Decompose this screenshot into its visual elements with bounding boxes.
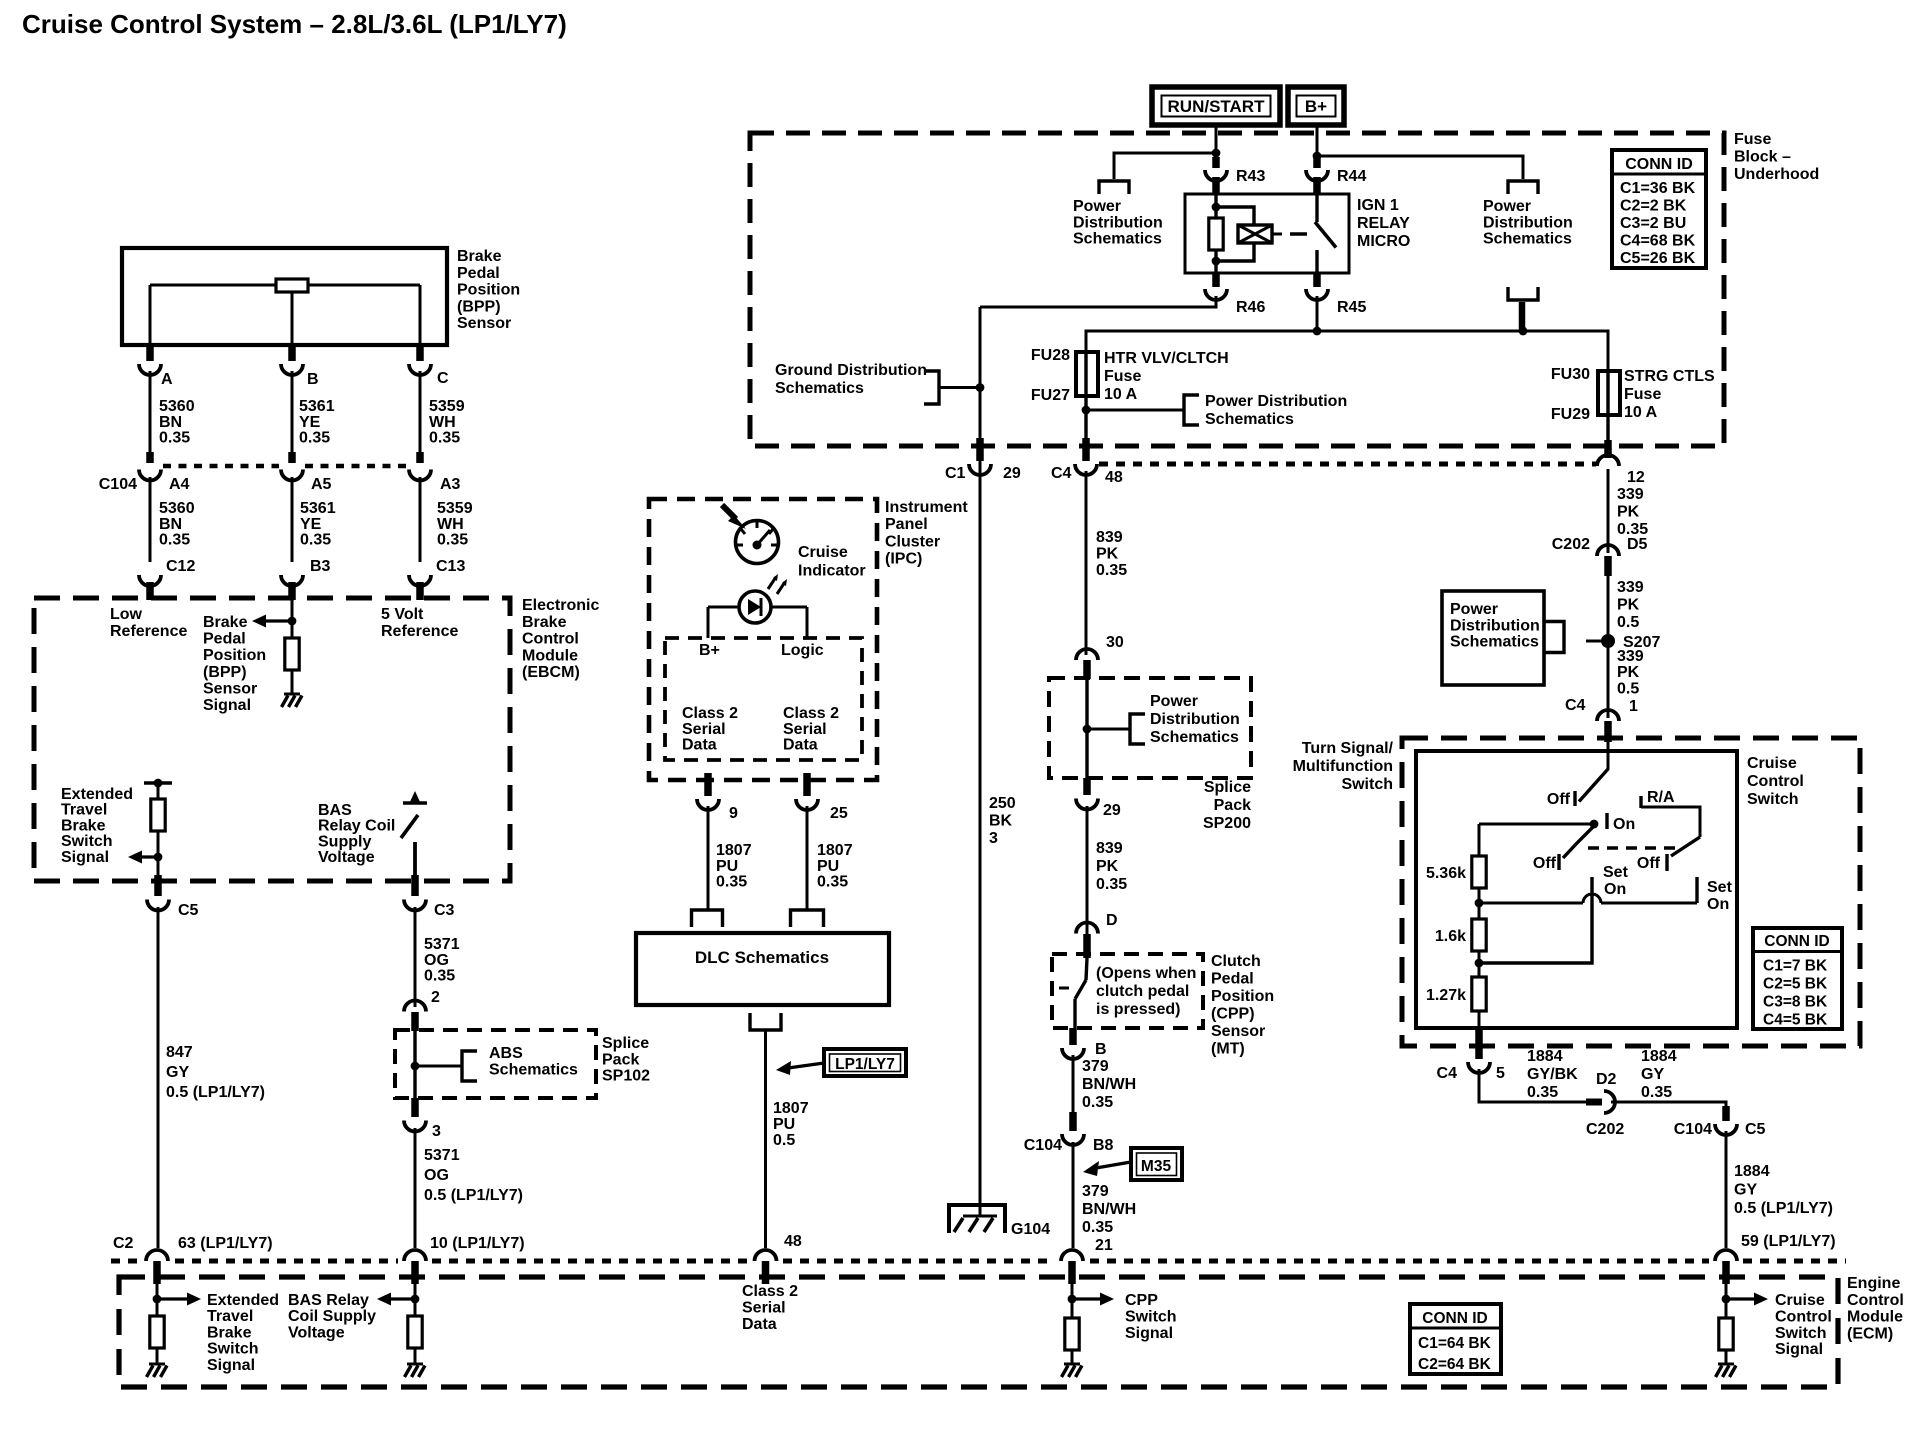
svg-text:12: 12	[1627, 469, 1645, 486]
svg-text:(IPC): (IPC)	[885, 551, 922, 568]
resistor ECM CPP	[1065, 1318, 1079, 1364]
svg-text:0.35: 0.35	[424, 968, 455, 985]
callout box LP1/LY7	[824, 1049, 906, 1076]
svg-text:C104: C104	[1674, 1121, 1712, 1138]
wire 5359 WH segment 2	[419, 477, 422, 562]
svg-text:Pedal: Pedal	[457, 265, 500, 282]
label wire 379 BN/WH 0.35 b	[1082, 1183, 1136, 1236]
svg-text:C2=5 BK: C2=5 BK	[1763, 976, 1828, 993]
connector R43	[1205, 157, 1265, 194]
wire 379 BN/WH segment 2	[1072, 1142, 1075, 1248]
svg-text:Distribution: Distribution	[1073, 214, 1163, 231]
switch blade off middle	[1533, 826, 1594, 872]
arrow extended travel signal	[128, 851, 158, 864]
svg-text:Distribution: Distribution	[1150, 711, 1240, 728]
connector pin B CPP	[1062, 1028, 1107, 1059]
svg-text:PK: PK	[1096, 858, 1119, 875]
svg-text:STRG CTLS: STRG CTLS	[1624, 368, 1715, 385]
svg-text:Switch: Switch	[1747, 791, 1799, 808]
svg-text:C12: C12	[166, 558, 195, 575]
relay coil crossed-box element	[1238, 225, 1282, 243]
svg-text:48: 48	[1105, 469, 1123, 486]
resistor 1.6k	[1435, 919, 1486, 951]
relay coil feed junction top	[1212, 203, 1221, 212]
svg-text:Travel: Travel	[61, 802, 107, 819]
node BPP signal junction	[288, 617, 297, 626]
svg-text:ABS: ABS	[489, 1045, 523, 1062]
label HTR VLV/CLTCH fuse	[1104, 350, 1229, 403]
label EBCM	[522, 597, 599, 681]
electronic brake control module box	[34, 598, 510, 881]
label ABS schematics	[489, 1045, 578, 1078]
svg-text:Brake: Brake	[203, 614, 248, 631]
wire 5361 YE segment 2	[291, 477, 294, 562]
splice pack SP200 box	[1049, 678, 1251, 778]
connector R46	[1205, 274, 1265, 316]
svg-text:Signal: Signal	[207, 1357, 255, 1374]
node FU27 junction	[1082, 406, 1091, 415]
power feed B+ box	[1288, 87, 1344, 125]
node junction at R43 wire	[1212, 149, 1221, 158]
svg-text:A5: A5	[311, 476, 332, 493]
svg-text:C2=2 BK: C2=2 BK	[1620, 198, 1687, 215]
wire 5360 BN segment 2	[149, 477, 152, 562]
connector C2 pin 63	[146, 1250, 168, 1284]
svg-text:C: C	[437, 370, 449, 387]
off-page bracket power distribution right top	[1508, 181, 1538, 194]
svg-text:C2=64 BK: C2=64 BK	[1418, 1356, 1492, 1373]
node chain junction 1	[1475, 899, 1484, 908]
svg-text:0.35: 0.35	[1096, 562, 1127, 579]
indicator LED	[708, 591, 807, 623]
connector pin 48 boundary	[755, 1250, 777, 1284]
svg-text:Power: Power	[1483, 198, 1531, 215]
label wire 5371 OG 0.5	[424, 1147, 523, 1204]
svg-text:Off: Off	[1533, 855, 1557, 872]
svg-text:Pedal: Pedal	[1211, 971, 1254, 988]
relay internal dashed link	[1290, 232, 1307, 235]
svg-text:Multifunction: Multifunction	[1293, 758, 1393, 775]
svg-text:Control: Control	[1747, 773, 1804, 790]
connector C3 EBCM	[404, 875, 455, 919]
switch BAS relay	[401, 791, 427, 881]
svg-text:OG: OG	[424, 1167, 449, 1184]
svg-text:21: 21	[1095, 1237, 1113, 1254]
svg-text:0.35: 0.35	[429, 430, 460, 447]
svg-text:Module: Module	[522, 647, 578, 664]
label Logic pin	[781, 642, 824, 659]
wire 847 GY	[157, 907, 160, 1248]
off-page bracket ground distribution	[924, 371, 978, 404]
label power distribution schematics SP200	[1150, 693, 1240, 746]
svg-text:29: 29	[1003, 465, 1021, 482]
svg-text:YE: YE	[300, 516, 322, 533]
connector C104 pin A3	[409, 470, 461, 494]
svg-text:C202: C202	[1552, 536, 1590, 553]
svg-text:Cruise Control System – 2.8L/3: Cruise Control System – 2.8L/3.6L (LP1/L…	[22, 9, 567, 39]
svg-text:clutch pedal: clutch pedal	[1096, 983, 1189, 1000]
label FU27	[1031, 387, 1070, 404]
svg-text:Fuse: Fuse	[1104, 368, 1141, 385]
svg-text:On: On	[1613, 816, 1635, 833]
connector pin 30 SP200	[1076, 634, 1124, 679]
svg-text:C2: C2	[113, 1235, 134, 1252]
wire B3 into EBCM	[291, 600, 294, 638]
svg-text:839: 839	[1096, 840, 1123, 857]
svg-text:BAS Relay: BAS Relay	[288, 1292, 369, 1309]
connector R44	[1306, 157, 1366, 194]
svg-text:PU: PU	[716, 858, 738, 875]
svg-text:Control: Control	[522, 631, 579, 648]
svg-text:Sensor: Sensor	[1211, 1023, 1265, 1040]
label cruise control switch	[1747, 755, 1804, 808]
svg-text:FU28: FU28	[1031, 347, 1070, 364]
svg-text:Switch: Switch	[1775, 1325, 1827, 1342]
svg-text:Logic: Logic	[781, 642, 824, 659]
svg-text:CONN ID: CONN ID	[1422, 1310, 1487, 1327]
svg-text:48: 48	[784, 1233, 802, 1250]
connector C4 pin 1 cruise	[1565, 697, 1638, 742]
label wire 5359 WH 0.35 a	[429, 398, 465, 447]
svg-text:Reference: Reference	[381, 623, 458, 640]
label pin 48	[784, 1233, 802, 1250]
wire chain c	[1478, 1011, 1481, 1030]
connector C104 pin B8	[1024, 1112, 1114, 1154]
svg-text:A3: A3	[440, 476, 461, 493]
svg-text:B8: B8	[1093, 1137, 1114, 1154]
conn-id table fuse block	[1612, 150, 1706, 268]
label BAS relay coil supply voltage ECM	[288, 1292, 376, 1341]
svg-text:Turn Signal/: Turn Signal/	[1302, 740, 1394, 757]
power distribution schematics box	[1442, 591, 1544, 685]
label wire 5359 WH 0.35 b	[437, 500, 473, 549]
resistor 1.27k	[1426, 977, 1486, 1011]
svg-text:839: 839	[1096, 529, 1123, 546]
svg-text:1884: 1884	[1641, 1048, 1677, 1065]
svg-text:(BPP): (BPP)	[457, 298, 501, 315]
harness boundary dotted line	[111, 1259, 1846, 1264]
svg-text:0.35: 0.35	[159, 430, 190, 447]
svg-text:C104: C104	[99, 476, 137, 493]
label FU29	[1551, 406, 1590, 423]
svg-text:A4: A4	[169, 476, 190, 493]
svg-text:1.27k: 1.27k	[1426, 987, 1466, 1004]
resistor EBCM B3 pulldown	[285, 638, 299, 694]
fuse block label	[1734, 131, 1819, 183]
wire 1884 GY lower	[1725, 1131, 1728, 1248]
svg-text:0.35: 0.35	[1096, 876, 1127, 893]
label wire 1807 PU 0.35 right	[817, 842, 853, 891]
DLC bottom bracket	[750, 1013, 781, 1030]
label class 2 serial data left	[682, 705, 738, 754]
svg-text:C13: C13	[436, 558, 465, 575]
connector pin 2 splice pack	[404, 989, 440, 1031]
svg-text:C1=36 BK: C1=36 BK	[1620, 180, 1696, 197]
svg-text:5361: 5361	[299, 398, 335, 415]
svg-text:RUN/START: RUN/START	[1168, 97, 1266, 116]
svg-text:Switch: Switch	[207, 1341, 259, 1358]
svg-text:Data: Data	[682, 737, 717, 754]
svg-text:1884: 1884	[1527, 1048, 1563, 1065]
wire SP200 to PDS bracket	[1087, 728, 1130, 731]
label 5 volt reference	[381, 606, 458, 640]
svg-text:BN/WH: BN/WH	[1082, 1201, 1136, 1218]
relay U-IGN1 box	[1185, 194, 1349, 273]
IPC logic inner dashed box	[665, 638, 862, 760]
svg-text:GY: GY	[166, 1064, 189, 1081]
label BPP sensor	[457, 248, 520, 332]
svg-text:3: 3	[989, 830, 998, 847]
dashed gang link	[1588, 846, 1676, 849]
label IPC	[885, 499, 968, 568]
svg-text:1807: 1807	[773, 1100, 809, 1117]
label wire 339 PK 0.5 lower	[1617, 648, 1644, 697]
svg-text:Serial: Serial	[682, 721, 726, 738]
svg-text:CONN ID: CONN ID	[1625, 156, 1693, 173]
off-page bracket PDS SP200	[1130, 714, 1145, 744]
svg-text:PK: PK	[1617, 504, 1640, 521]
svg-text:Pack: Pack	[1214, 797, 1251, 814]
svg-text:Fuse: Fuse	[1734, 131, 1771, 148]
label power distribution schematics right	[1483, 198, 1573, 248]
svg-text:Block –: Block –	[1734, 149, 1791, 166]
svg-text:Switch: Switch	[61, 833, 113, 850]
svg-text:9: 9	[729, 805, 738, 822]
svg-text:Serial: Serial	[742, 1299, 786, 1316]
ground ECM cruise	[1716, 1364, 1737, 1377]
svg-text:RELAY: RELAY	[1357, 215, 1410, 232]
fuse FU30/FU29 STRG CTLS	[1598, 371, 1620, 440]
svg-text:WH: WH	[437, 516, 464, 533]
fuse FU28/FU27 HTR VLV/CLTCH	[1076, 352, 1098, 440]
node R45 bus junction	[1313, 327, 1322, 336]
svg-text:Extended: Extended	[61, 786, 133, 803]
label opens when clutch pedal	[1096, 965, 1196, 1018]
relay coil junction bottom	[1212, 257, 1221, 266]
svg-text:5359: 5359	[429, 398, 465, 415]
svg-text:0.35: 0.35	[299, 430, 330, 447]
wire 839 PK segment 2	[1086, 806, 1089, 944]
svg-text:10 A: 10 A	[1624, 404, 1658, 421]
wire 250 BK	[979, 307, 982, 1216]
svg-text:Splice: Splice	[1204, 779, 1251, 796]
label cruise indicator	[798, 544, 866, 580]
label STRG CTLS fuse	[1624, 368, 1715, 421]
svg-text:5: 5	[1496, 1065, 1505, 1082]
label splice pack SP200	[1203, 779, 1251, 832]
svg-text:B: B	[307, 371, 319, 388]
svg-text:Cluster: Cluster	[885, 533, 940, 550]
label turn signal multifunction switch	[1293, 740, 1394, 793]
svg-text:5360: 5360	[159, 398, 195, 415]
label class 2 serial data ECM	[742, 1283, 798, 1333]
connector C1 pin 29	[945, 438, 1021, 482]
wire 5371 OG segment 2	[414, 1128, 417, 1248]
connector BPP pin C	[409, 347, 449, 387]
relay coil loop wire	[1216, 207, 1254, 261]
svg-text:0.5 (LP1/LY7): 0.5 (LP1/LY7)	[1734, 1200, 1833, 1217]
connector IPC pin 25	[796, 773, 848, 822]
wire on-row	[1479, 823, 1594, 826]
svg-text:0.35: 0.35	[159, 532, 190, 549]
wire resistor chain top	[1478, 824, 1481, 856]
svg-text:59 (LP1/LY7): 59 (LP1/LY7)	[1741, 1233, 1836, 1250]
connector BPP pin A	[139, 347, 173, 388]
svg-text:CONN ID: CONN ID	[1764, 933, 1829, 950]
svg-text:C3=8 BK: C3=8 BK	[1763, 994, 1828, 1011]
connector IPC pin 9	[697, 773, 738, 822]
wire 379 BN/WH segment 1	[1072, 1055, 1075, 1114]
node ECM CPP junction	[1068, 1295, 1077, 1304]
svg-text:C104: C104	[1024, 1137, 1062, 1154]
svg-text:Underhood: Underhood	[1734, 166, 1819, 183]
connector C104 boundary dotted	[163, 464, 407, 469]
svg-text:379: 379	[1082, 1183, 1109, 1200]
wire ECM CPP	[1071, 1284, 1074, 1318]
connector pin 12	[1597, 440, 1645, 486]
wire 1807 PU 0.5	[764, 1030, 767, 1248]
wire junction to PDS-left drop	[1114, 153, 1216, 179]
wire 339 PK 0.5 upper	[1607, 576, 1610, 718]
svg-text:GY: GY	[1641, 1066, 1664, 1083]
splice pack SP102 box	[395, 1030, 596, 1098]
ground G104	[949, 1205, 1050, 1238]
svg-text:C5=26 BK: C5=26 BK	[1620, 250, 1696, 267]
off-page bracket PDS to S207	[1544, 622, 1602, 653]
connector D2	[1586, 1071, 1624, 1138]
title	[22, 9, 567, 39]
off-page bracket PDS below FU27	[1184, 395, 1199, 425]
label extended travel brake switch signal	[61, 786, 133, 866]
label set on middle	[1603, 864, 1629, 898]
contact set-on right	[1697, 877, 1733, 913]
svg-text:5 Volt: 5 Volt	[381, 606, 424, 623]
svg-text:R43: R43	[1236, 168, 1265, 185]
ground EBCM internal	[282, 694, 303, 707]
svg-text:5360: 5360	[159, 500, 195, 517]
svg-text:Schematics: Schematics	[775, 380, 864, 397]
engine control module box	[119, 1277, 1838, 1387]
connector pin D clutch	[1076, 912, 1118, 958]
contact On	[1590, 813, 1636, 833]
svg-text:C1=7 BK: C1=7 BK	[1763, 958, 1828, 975]
svg-text:Schematics: Schematics	[1483, 231, 1572, 248]
svg-text:Sensor: Sensor	[457, 315, 511, 332]
svg-text:0.5 (LP1/LY7): 0.5 (LP1/LY7)	[424, 1187, 523, 1204]
node extended travel junction	[154, 853, 163, 862]
svg-text:Brake: Brake	[522, 614, 567, 631]
svg-text:250: 250	[989, 795, 1016, 812]
svg-text:BK: BK	[989, 813, 1013, 830]
wire FU27 junction to PDS bracket	[1086, 409, 1184, 412]
svg-text:SP102: SP102	[602, 1068, 650, 1085]
svg-text:BN: BN	[159, 414, 182, 431]
DLC schematics box	[636, 933, 889, 1005]
BPP pot end wires	[150, 285, 420, 345]
svg-text:LP1/LY7: LP1/LY7	[835, 1056, 895, 1073]
svg-text:FU29: FU29	[1551, 406, 1590, 423]
svg-text:Control: Control	[1847, 1292, 1904, 1309]
label ECM	[1847, 1275, 1904, 1342]
svg-text:Cruise: Cruise	[1775, 1292, 1825, 1309]
wire set-on row with hop	[1479, 894, 1697, 903]
svg-text:Cruise: Cruise	[1747, 755, 1797, 772]
svg-text:29: 29	[1103, 802, 1121, 819]
clutch pedal position box	[1052, 954, 1203, 1028]
label wire 1807 PU 0.5 text	[773, 1100, 809, 1149]
svg-text:5371: 5371	[424, 936, 460, 953]
svg-text:Electronic: Electronic	[522, 597, 599, 614]
label wire 1884 GY 0.35	[1641, 1048, 1677, 1101]
wire 5371 OG segment 1	[414, 907, 417, 1007]
label wire 5360 BN 0.35 b	[159, 500, 195, 549]
label pin 10	[430, 1235, 525, 1252]
svg-text:Travel: Travel	[207, 1308, 253, 1325]
svg-text:B: B	[1095, 1041, 1107, 1058]
svg-text:Schematics: Schematics	[1150, 729, 1239, 746]
svg-text:Power: Power	[1150, 693, 1198, 710]
wire R45 down to bus	[1316, 296, 1319, 331]
label B+ pin	[699, 642, 720, 659]
node junction at R44 wire	[1313, 152, 1322, 161]
label wire 5371 OG 0.35	[424, 936, 460, 985]
svg-text:BN: BN	[159, 516, 182, 533]
harness boundary dotted line upper	[1099, 462, 1596, 467]
label wire 847 GY 0.5	[166, 1044, 265, 1101]
node SP102 junction	[411, 1031, 420, 1098]
off-page bracket power distribution right bottom	[1508, 287, 1538, 330]
svg-text:Low: Low	[110, 606, 143, 623]
svg-text:GY: GY	[1734, 1181, 1757, 1198]
connector C104 pin A5	[281, 470, 332, 494]
off-page bracket power distribution left	[1099, 181, 1129, 194]
svg-text:Coil Supply: Coil Supply	[288, 1308, 376, 1325]
wire 5359 WH segment 1	[419, 371, 422, 463]
svg-text:B3: B3	[310, 558, 331, 575]
svg-text:Brake: Brake	[457, 248, 502, 265]
wire Logic drop	[806, 607, 809, 638]
wire cruise feed	[1607, 742, 1610, 770]
svg-text:5.36k: 5.36k	[1426, 865, 1466, 882]
arrow M35 to wire	[1083, 1161, 1131, 1176]
label clutch pedal position sensor	[1211, 953, 1274, 1058]
connector pin 21 boundary	[1061, 1250, 1083, 1284]
svg-text:Position: Position	[203, 647, 266, 664]
svg-text:(BPP): (BPP)	[203, 664, 247, 681]
svg-text:Pack: Pack	[602, 1051, 639, 1068]
svg-text:Signal: Signal	[61, 849, 109, 866]
svg-text:Reference: Reference	[110, 623, 187, 640]
label DLC schematics	[695, 948, 829, 967]
svg-text:Engine: Engine	[1847, 1275, 1900, 1292]
arrow cruise control switch signal	[1726, 1293, 1768, 1306]
svg-text:CPP: CPP	[1125, 1292, 1158, 1309]
svg-text:3: 3	[432, 1123, 441, 1140]
svg-text:5371: 5371	[424, 1147, 460, 1164]
label ground distribution schematics	[775, 362, 927, 397]
fuse block - underhood (dashed box)	[750, 133, 1724, 446]
label power distribution schematics FU27	[1205, 393, 1347, 428]
svg-text:0.5: 0.5	[1617, 680, 1639, 697]
contact set-on middle	[1479, 877, 1592, 963]
svg-text:0.35: 0.35	[817, 874, 848, 891]
svg-text:Ground Distribution: Ground Distribution	[775, 362, 927, 379]
svg-text:YE: YE	[299, 414, 321, 431]
svg-text:R45: R45	[1337, 299, 1366, 316]
callout box M35	[1131, 1148, 1182, 1180]
svg-text:Class 2: Class 2	[783, 705, 839, 722]
label pin 21	[1095, 1237, 1113, 1254]
